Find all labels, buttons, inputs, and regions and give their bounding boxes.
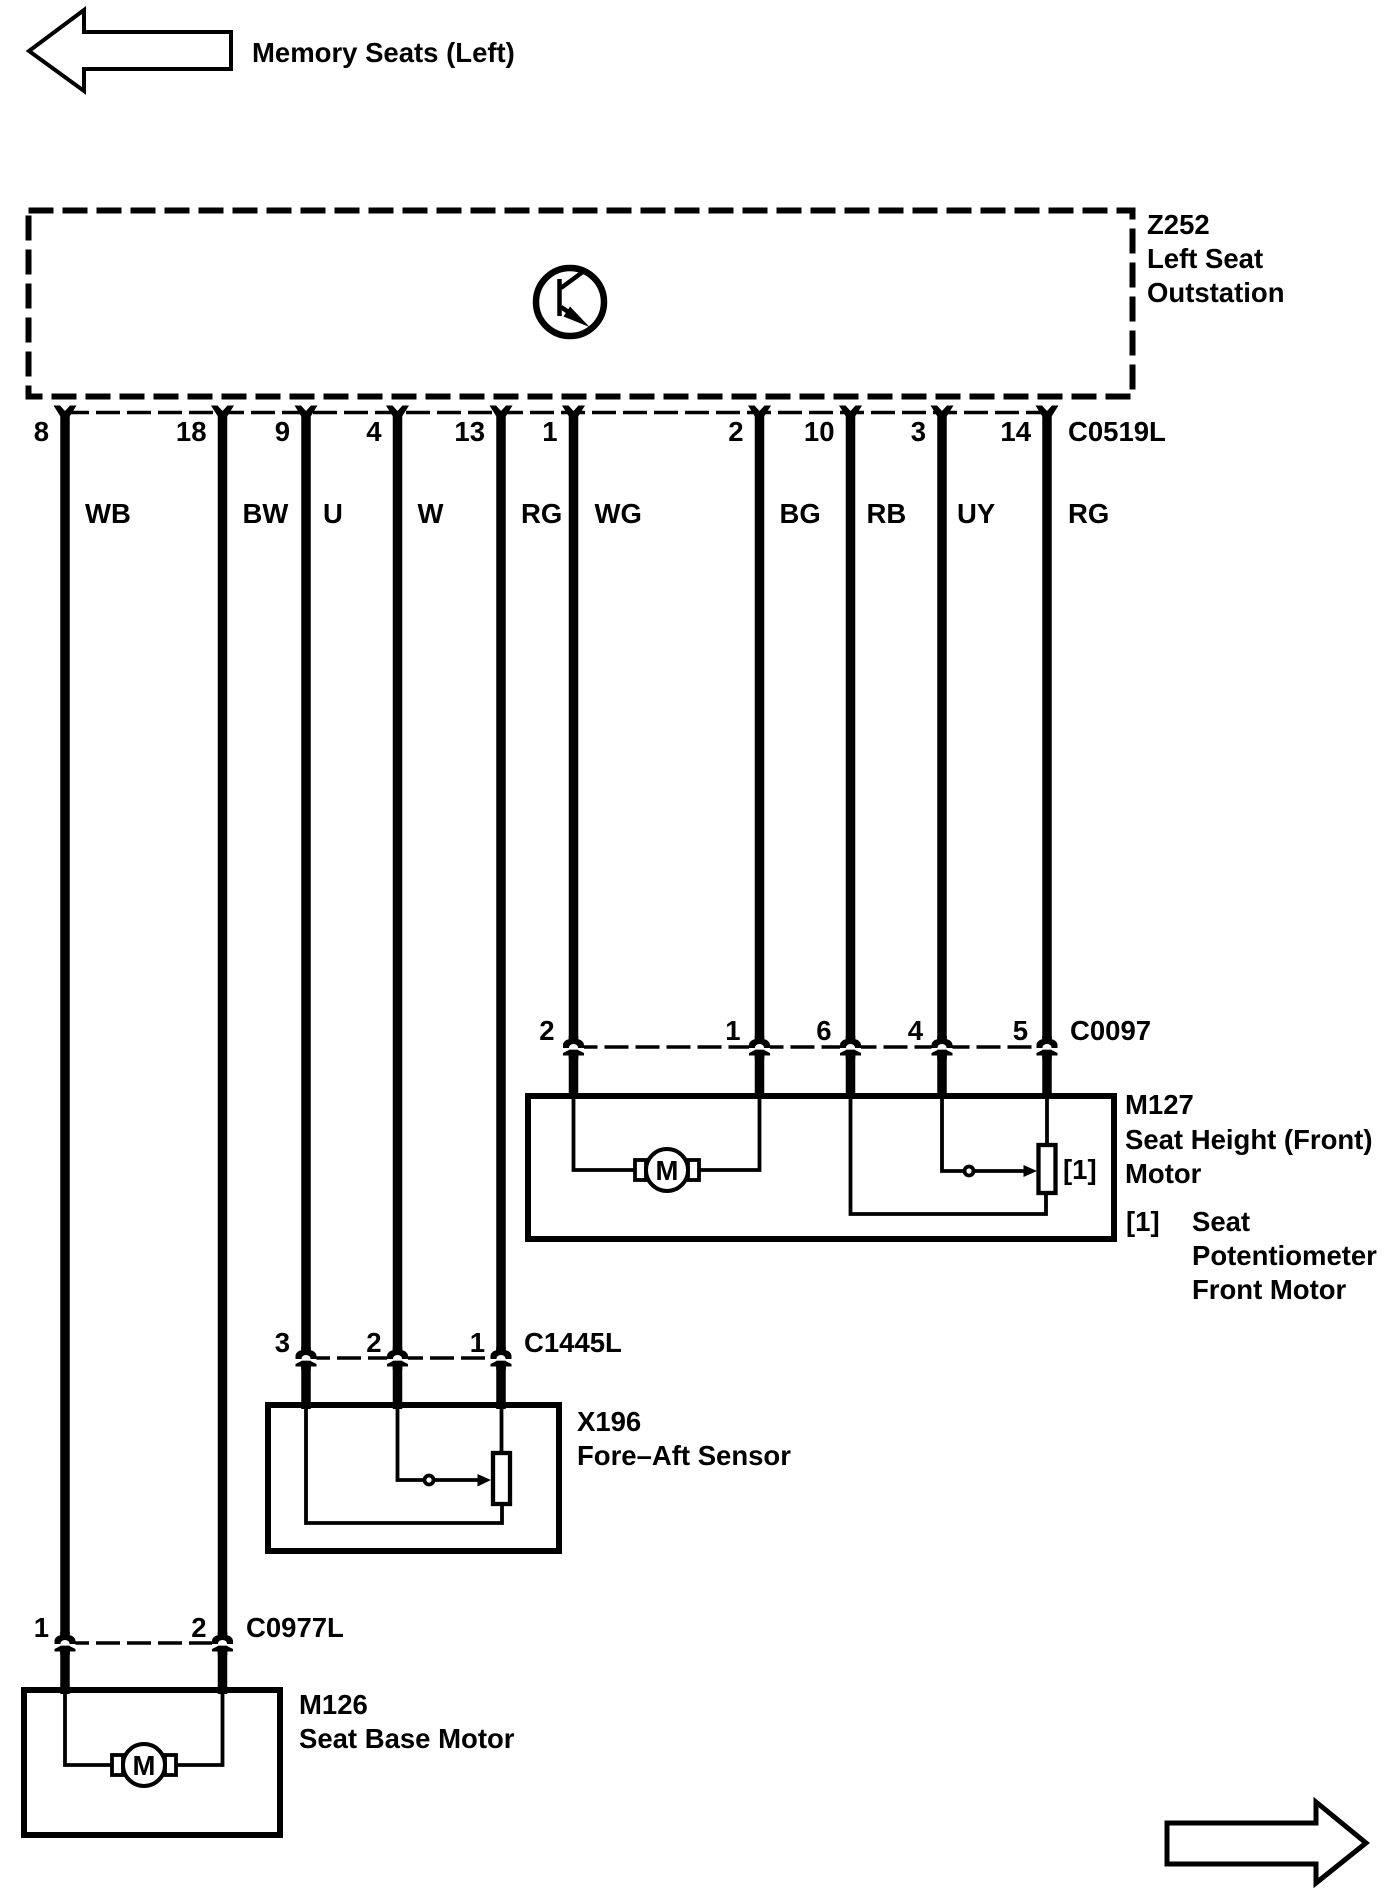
svg-text:C0977L: C0977L — [246, 1612, 344, 1643]
svg-text:RB: RB — [867, 498, 907, 529]
wire U — [301, 415, 311, 1409]
svg-text:2: 2 — [539, 1015, 554, 1046]
wire BG — [755, 415, 765, 1099]
wire WG — [569, 415, 579, 1099]
svg-text:C0519L: C0519L — [1068, 416, 1166, 447]
svg-text:5: 5 — [1013, 1015, 1028, 1046]
svg-text:UY: UY — [957, 498, 995, 529]
svg-text:BG: BG — [780, 498, 821, 529]
svg-text:Motor: Motor — [1125, 1158, 1202, 1189]
wire RG2 — [1042, 415, 1052, 1099]
svg-text:WG: WG — [595, 498, 642, 529]
svg-text:Z252: Z252 — [1147, 209, 1210, 240]
svg-text:Potentiometer: Potentiometer — [1192, 1240, 1377, 1271]
sensor X196 box — [268, 1405, 559, 1551]
connector C1445L dashed line — [306, 1356, 501, 1360]
connector C0519L dashed line — [65, 411, 1047, 415]
inline connector pins at C1445L — [296, 1347, 317, 1370]
svg-text:8: 8 — [34, 416, 49, 447]
connector C0097 dashed line — [574, 1045, 1048, 1049]
svg-text:M: M — [656, 1155, 679, 1186]
nav arrow (page link, points right) — [1167, 1802, 1366, 1883]
svg-text:4: 4 — [908, 1015, 924, 1046]
svg-text:X196: X196 — [577, 1406, 641, 1437]
svg-text:[1]: [1] — [1063, 1154, 1097, 1185]
module Z252 dashed box — [29, 211, 1133, 397]
svg-text:Left Seat: Left Seat — [1147, 243, 1263, 274]
svg-text:C0097: C0097 — [1070, 1015, 1151, 1046]
svg-text:1: 1 — [34, 1612, 49, 1643]
inline connector pins at C0097 — [563, 1036, 584, 1059]
svg-text:Seat Height (Front): Seat Height (Front) — [1125, 1124, 1373, 1155]
svg-text:14: 14 — [1000, 416, 1031, 447]
nav arrow (page link, points left) — [29, 10, 231, 91]
svg-text:Memory Seats (Left): Memory Seats (Left) — [252, 37, 515, 68]
wire BW — [218, 415, 228, 1694]
svg-text:U: U — [323, 498, 343, 529]
svg-text:2: 2 — [366, 1327, 381, 1358]
svg-text:1: 1 — [542, 416, 557, 447]
wire RB — [846, 415, 856, 1099]
svg-text:M127: M127 — [1125, 1089, 1194, 1120]
svg-text:4: 4 — [366, 416, 382, 447]
svg-text:Fore–Aft Sensor: Fore–Aft Sensor — [577, 1440, 791, 1471]
potentiometer in X196 — [493, 1453, 510, 1504]
motor M126 symbol — [112, 1755, 123, 1775]
svg-text:Seat Base Motor: Seat Base Motor — [299, 1723, 515, 1754]
M127 motor circuit wiring — [574, 1099, 638, 1170]
X196 wiper wiring — [398, 1408, 425, 1480]
svg-text:M126: M126 — [299, 1689, 368, 1720]
motor M127 symbol — [635, 1160, 646, 1180]
svg-text:M: M — [133, 1750, 156, 1781]
svg-text:1: 1 — [725, 1015, 740, 1046]
svg-text:1: 1 — [470, 1327, 485, 1358]
svg-text:W: W — [418, 498, 444, 529]
svg-text:RG: RG — [1068, 498, 1109, 529]
fork pins at C0519L — [54, 406, 77, 422]
svg-text:Outstation: Outstation — [1147, 277, 1285, 308]
svg-text:BW: BW — [243, 498, 289, 529]
svg-text:9: 9 — [275, 416, 290, 447]
motor M126 box — [24, 1690, 280, 1835]
wire UY — [937, 415, 947, 1099]
inline connector pins at C0977L — [55, 1632, 76, 1655]
svg-text:6: 6 — [816, 1015, 831, 1046]
svg-text:WB: WB — [85, 498, 131, 529]
connector C0977L dashed line — [65, 1641, 223, 1645]
svg-text:13: 13 — [454, 416, 485, 447]
svg-text:RG: RG — [521, 498, 562, 529]
svg-text:2: 2 — [728, 416, 743, 447]
potentiometer [1] in M127 — [1039, 1145, 1056, 1193]
svg-text:C1445L: C1445L — [524, 1327, 622, 1358]
svg-text:Seat: Seat — [1192, 1206, 1250, 1237]
X196 wiring — [306, 1408, 502, 1523]
svg-text:10: 10 — [804, 416, 835, 447]
wire W — [393, 415, 403, 1409]
svg-text:18: 18 — [176, 416, 207, 447]
wire RG — [496, 415, 506, 1409]
transistor symbol U1 (in Z252) — [536, 268, 604, 336]
svg-text:Front Motor: Front Motor — [1192, 1274, 1347, 1305]
svg-text:[1]: [1] — [1126, 1206, 1160, 1237]
M127 potentiometer wiring — [851, 1099, 1047, 1214]
M127 wiper wiring — [942, 1099, 965, 1171]
svg-text:3: 3 — [911, 416, 926, 447]
motor M127 box — [528, 1096, 1114, 1239]
wire WB — [60, 415, 70, 1694]
M126 motor circuit wiring — [65, 1693, 114, 1765]
svg-text:2: 2 — [191, 1612, 206, 1643]
svg-text:3: 3 — [275, 1327, 290, 1358]
